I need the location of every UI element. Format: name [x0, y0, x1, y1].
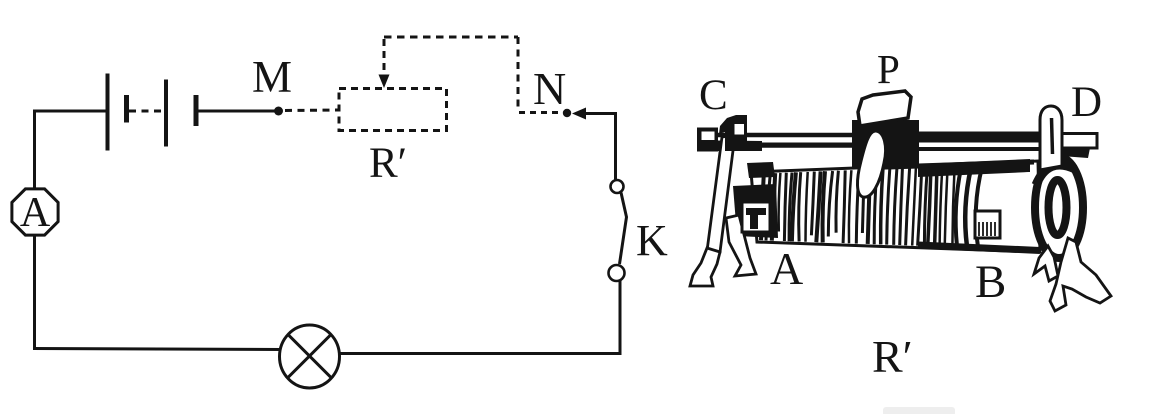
rheostat rail right thin line [916, 147, 1063, 151]
rheostat rail left top line [718, 133, 858, 138]
wire bottom-left horizontal [33, 349, 281, 350]
battery BT1 cell2 long plate [164, 80, 168, 147]
lamp L1 [280, 325, 340, 388]
wire to N with arrowhead [572, 108, 617, 120]
rheostat slider block [852, 120, 919, 167]
rheostat right bracket hook [1040, 106, 1062, 170]
rheostat left boot [690, 248, 720, 286]
wire battery to M [198, 110, 276, 113]
svg-text:R′: R′ [369, 140, 407, 187]
ammeter A1 [12, 189, 58, 236]
rheostat cylinder left face top band [747, 162, 775, 178]
rheostat terminal box C [697, 128, 718, 152]
battery BT1 cell1 short plate [124, 95, 129, 123]
rheostat terminal lug A [742, 202, 770, 232]
battery BT1 cell1 long plate [106, 74, 110, 151]
wire right vertical upper [614, 112, 617, 181]
rheostat left bracket curl [719, 115, 747, 151]
wire bottom-right horizontal [339, 352, 622, 355]
resistor R' dashed box [339, 89, 447, 131]
rheostat cylinder top black band right [918, 159, 1030, 177]
dashed wire right vertical [517, 37, 520, 108]
rheostat black piece under right bar [1061, 147, 1090, 158]
svg-text:K: K [636, 216, 668, 265]
svg-text:A: A [770, 243, 803, 294]
rheostat left leg back [707, 135, 735, 252]
battery dashed link [129, 110, 164, 113]
rheostat cylinder body [751, 161, 1040, 252]
dashed wire top horizontal [384, 36, 518, 39]
rheostat slider grip P [858, 91, 911, 126]
svg-text:A: A [20, 190, 51, 236]
node N [563, 109, 571, 117]
rheostat cylinder left face bottom mass [733, 184, 778, 238]
battery BT1 cell2 short plate [194, 95, 199, 126]
svg-text:P: P [877, 46, 900, 92]
dashed arrow into box top [379, 39, 390, 88]
wire top-left horizontal [33, 110, 107, 113]
rheostat terminal lug B [975, 211, 1000, 238]
rheostat left leg front [726, 215, 756, 276]
rheostat rail right end white bar D [1061, 134, 1097, 149]
svg-text:C: C [699, 72, 728, 119]
svg-text:N: N [533, 63, 566, 114]
rheostat right foot [1034, 238, 1111, 311]
switch K [609, 180, 627, 281]
rheostat smooth bare area right [986, 172, 1032, 244]
wire left vertical upper [33, 110, 36, 191]
faint scan smudge [883, 407, 955, 414]
svg-text:B: B [975, 256, 1006, 308]
rheostat cylinder bottom edge thick [918, 245, 1040, 251]
rheostat end cap outer ring [1035, 157, 1083, 258]
dashed wire into N [519, 111, 561, 114]
dashed wire M to resistor box [285, 109, 339, 113]
node M [274, 107, 283, 116]
rheostat rail right segment [916, 132, 1041, 143]
rheostat slider blade [857, 131, 885, 197]
svg-text:M: M [252, 52, 292, 102]
rheostat cylinder top edge thick right [858, 162, 1034, 168]
wire left vertical lower [33, 234, 36, 349]
rheostat rail left bottom bar [716, 141, 858, 152]
rheostat end cap top-left dark arc [1036, 165, 1075, 185]
rheostat end cap inner ring [1049, 180, 1067, 235]
svg-text:D: D [1071, 79, 1102, 126]
svg-text:R′: R′ [872, 331, 913, 382]
wire right vertical lower [619, 279, 622, 355]
rheostat winding [761, 166, 982, 247]
